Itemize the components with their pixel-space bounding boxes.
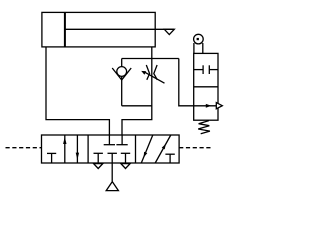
- roller stem: [193, 43, 195, 53]
- exhaust triangle port 3: [216, 103, 222, 109]
- box2 bottom blocked port 3: [125, 153, 127, 163]
- cylinder piston rod: [65, 28, 174, 30]
- compressed air source: [106, 182, 118, 191]
- top box blocked-port symbol: [194, 69, 203, 71]
- box2 top blocked port 2: [121, 135, 123, 145]
- box2 bottom blocked port 1: [111, 153, 113, 163]
- box1 up arrow: [64, 135, 66, 163]
- exhaust triangle port 5: [94, 164, 103, 169]
- wire: check valve branch: [121, 59, 123, 106]
- supply line port 1: [111, 163, 113, 181]
- box1 blocked port T: [51, 153, 53, 163]
- box2 bottom blocked port 5: [97, 153, 99, 163]
- return spring: [198, 121, 210, 134]
- wire: cylinder left port to valve port 4: [46, 47, 109, 135]
- valve body: [42, 135, 180, 163]
- box3 diagonal flow arrow b: [155, 135, 171, 163]
- throttle valve (adjustable): [141, 65, 164, 83]
- wire: flow-control bottom rail: [122, 105, 152, 107]
- cylinder A1 (double-acting) body: [42, 12, 155, 47]
- check valve V1 (ball and seat): [112, 67, 131, 80]
- pilot line right (dashed): [179, 147, 211, 149]
- roller valve S1 (3/2 roller lever, spring return): [194, 34, 223, 133]
- wire: cylinder right port down through throttle to valve port 2: [122, 47, 152, 135]
- exhaust triangle port 3: [121, 164, 130, 169]
- bottom box flow arrow to exhaust: [194, 105, 218, 107]
- valve body: [194, 53, 218, 120]
- box2 top blocked port 4: [108, 135, 110, 145]
- directional valve V2 (5/3 way): [42, 135, 180, 163]
- rod end position marker: [164, 29, 174, 34]
- cylinder piston: [64, 12, 66, 47]
- box3 diagonal flow arrow a: [141, 135, 153, 163]
- box3 blocked port T: [169, 154, 171, 163]
- box1 down arrow: [76, 135, 78, 163]
- wire: right leg to roller valve: [179, 59, 194, 106]
- pilot line left (dashed): [6, 147, 42, 149]
- roller wheel: [194, 34, 204, 44]
- wire: flow-control top rail: [122, 58, 179, 60]
